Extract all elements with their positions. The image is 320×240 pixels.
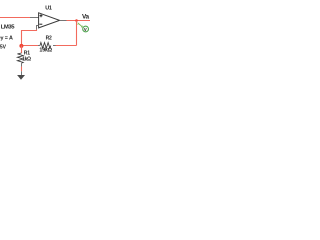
svg-text:V: V xyxy=(84,27,87,32)
node junction dot at inverting feedback node xyxy=(19,44,23,48)
svg-text:ey = A: ey = A xyxy=(0,36,13,42)
resistor R2 zigzag body xyxy=(40,43,51,49)
svg-text:R1: R1 xyxy=(24,50,30,56)
wire: R2 right lead xyxy=(53,45,77,47)
svg-text:U1: U1 xyxy=(45,5,52,11)
probe icon (green measurement probe, cut off at right edge) xyxy=(77,23,88,32)
wire: node down to R1 xyxy=(21,46,23,54)
resistor R1 zigzag body (vertical) xyxy=(17,53,23,63)
wire: R2 left lead to inverting node xyxy=(22,45,41,47)
wire: R1 bottom lead to ground xyxy=(21,63,23,75)
svg-text:19kΩ: 19kΩ xyxy=(39,48,52,54)
op-amp U1 triangle xyxy=(39,13,60,28)
wire: feedback from output node down to R2 xyxy=(76,21,78,46)
wire: LM35 output to U1 non-inverting input xyxy=(0,17,39,19)
op-amp U1 plus input marker xyxy=(40,14,43,17)
ground symbol (arrow) xyxy=(17,75,25,80)
svg-text:R2: R2 xyxy=(46,35,52,41)
svg-text:LM35: LM35 xyxy=(1,24,16,30)
svg-text:5V: 5V xyxy=(0,45,7,51)
svg-text:1kΩ: 1kΩ xyxy=(22,56,31,62)
svg-text:Va: Va xyxy=(82,14,90,21)
op-amp U1 inverting input pin stub xyxy=(36,25,38,30)
node junction dot at output xyxy=(75,19,78,22)
wire: inverting input down and left to feedback node xyxy=(22,30,37,46)
op-amp U1 minus input marker xyxy=(39,23,42,25)
wire: op-amp output to Va (right edge) xyxy=(67,20,91,22)
op-amp output pin stub xyxy=(60,20,67,22)
